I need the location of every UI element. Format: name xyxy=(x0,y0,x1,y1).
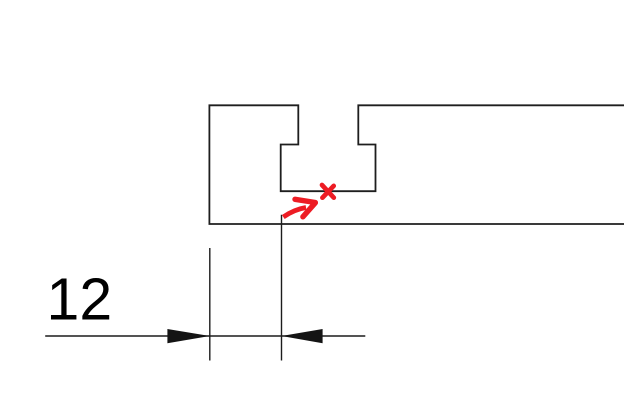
extension line left xyxy=(209,248,211,361)
dimension line xyxy=(45,335,365,337)
svg-text:12: 12 xyxy=(47,267,113,333)
dimension arrowhead right-pointing xyxy=(167,329,209,343)
extension line right xyxy=(281,215,283,361)
profile outline (T-slot extrusion cross-section) xyxy=(209,105,624,224)
red arrow annotation xyxy=(283,199,315,217)
dimension arrowhead left-pointing xyxy=(282,329,323,343)
red X mark xyxy=(322,185,334,198)
